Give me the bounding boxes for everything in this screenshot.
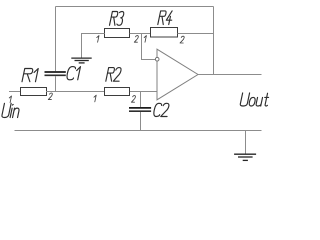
- resistor R2: [105, 68, 130, 96]
- node Uout label: [240, 93, 268, 106]
- pin 2 of R2: [131, 96, 135, 103]
- capacitor C1: [45, 67, 81, 80]
- wire junction down to inverting input: [142, 34, 156, 60]
- op-amp U1: [157, 49, 198, 100]
- ground at R3 pin 1: [71, 58, 91, 63]
- resistor R4: [151, 11, 178, 37]
- pin 2 of R3: [134, 36, 138, 43]
- pin 2 of R1: [48, 93, 52, 100]
- resistor R1: [21, 69, 47, 96]
- wire R4 pin2 to right rail: [178, 33, 214, 35]
- op-amp inverting input bubble: [155, 57, 159, 61]
- wire C2 tap: [140, 92, 142, 108]
- capacitor C2: [129, 103, 169, 116]
- wire op-amp output: [198, 74, 262, 76]
- pin 1 of R2: [94, 95, 96, 102]
- wire input lead: [9, 91, 21, 93]
- resistor R3: [105, 12, 130, 38]
- wire R3 pin1 lead to ground: [82, 34, 105, 58]
- pin 1 of R1: [9, 96, 11, 103]
- wire C1 to middle node: [55, 76, 57, 92]
- wire ground stem: [245, 131, 247, 154]
- wire top feedback rail: [56, 6, 214, 8]
- wire C2 to bottom rail: [140, 112, 142, 131]
- ground at bottom right: [234, 154, 256, 160]
- pin 1 of R3: [97, 36, 99, 43]
- wire R1 to R2: [46, 91, 104, 93]
- wire bottom rail: [15, 130, 262, 132]
- wire left vertical down to C1: [55, 7, 57, 72]
- pin 2 of R4: [180, 36, 184, 43]
- wire R3 pin2 to R4 pin1: [130, 33, 151, 35]
- node Uin label: [2, 103, 19, 117]
- wire right rail: [213, 7, 215, 75]
- pin 1 of R4: [144, 36, 146, 43]
- wire R2 pin2 to op-amp input: [130, 91, 157, 93]
